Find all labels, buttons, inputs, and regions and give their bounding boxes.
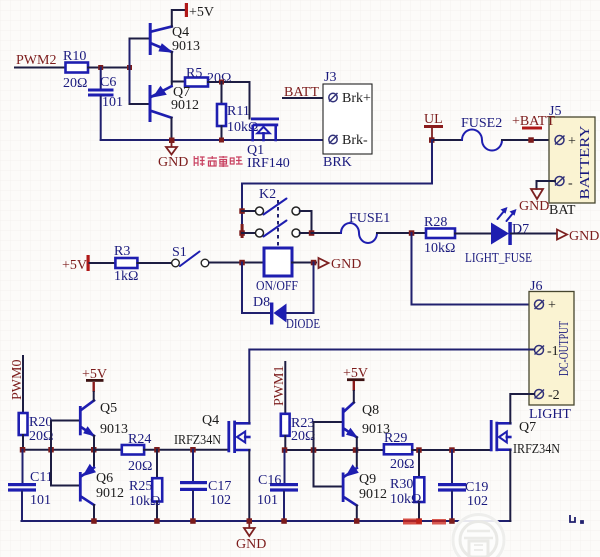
fuse FUSE1 xyxy=(341,211,390,243)
wire R3 to S1 xyxy=(137,262,171,264)
relay coil ON/OFF K2 xyxy=(256,248,298,294)
wire R28 to D7 xyxy=(455,233,492,235)
svg-text:9012: 9012 xyxy=(359,487,387,502)
wire Q4 drain to J6 pin -1 xyxy=(249,350,534,424)
node PWM2 label xyxy=(16,53,56,68)
wire down to Q1 gate xyxy=(249,82,251,119)
junction R11 bottom rail xyxy=(219,138,224,143)
wire K2 to FUSE1 xyxy=(312,232,342,234)
svg-text:20Ω: 20Ω xyxy=(291,429,315,444)
wire R10 to base bus xyxy=(88,67,130,69)
capacitor C11 xyxy=(8,450,53,521)
diode D8 xyxy=(253,295,320,332)
svg-text:20Ω: 20Ω xyxy=(128,459,152,474)
power port UL xyxy=(424,112,443,139)
junction K2 pole1 xyxy=(239,208,245,214)
junction base tap right xyxy=(311,447,317,453)
svg-text:GND: GND xyxy=(569,229,599,244)
wire R5 to R11 node xyxy=(208,81,250,83)
svg-text:9013: 9013 xyxy=(100,422,128,437)
power +5V top xyxy=(185,3,214,20)
svg-text:+: + xyxy=(548,298,556,313)
power +5V at Q8 xyxy=(343,366,368,403)
wire K2 left bus xyxy=(241,184,243,238)
relay K2 contacts xyxy=(242,187,312,247)
power port GND coil xyxy=(319,257,362,272)
junction R23 bottom xyxy=(282,447,288,453)
wire Q7 source down xyxy=(509,450,511,521)
svg-text:J6: J6 xyxy=(530,279,542,294)
node PWM1 label xyxy=(272,366,287,406)
capacitor C19 xyxy=(438,450,488,521)
junction R25 rail xyxy=(154,518,160,524)
wire FUSE1 to R28 xyxy=(377,232,426,234)
svg-text:Q5: Q5 xyxy=(100,401,117,416)
svg-text:Q4: Q4 xyxy=(172,25,189,40)
svg-text:FUSE2: FUSE2 xyxy=(461,116,502,131)
transistor Q8 xyxy=(342,403,390,439)
junction R30 top xyxy=(416,447,422,453)
resistor R28 xyxy=(424,215,455,256)
junction C19 top xyxy=(449,447,455,453)
svg-text:PWM2: PWM2 xyxy=(16,53,56,68)
svg-text:Q6: Q6 xyxy=(96,471,113,486)
svg-text:C17: C17 xyxy=(208,479,231,494)
label unload circuit chinese xyxy=(194,156,242,167)
resistor R10 xyxy=(63,49,88,91)
wire J5 pin2 to GND xyxy=(537,181,556,189)
junction coil left xyxy=(239,260,245,266)
junction C19 rail xyxy=(449,518,455,524)
power +BATT xyxy=(512,114,555,143)
svg-text:GND: GND xyxy=(331,257,361,272)
svg-text:IRF140: IRF140 xyxy=(247,156,290,171)
junction Q9 collector rail xyxy=(354,518,360,524)
svg-text:101: 101 xyxy=(102,95,123,110)
svg-text:101: 101 xyxy=(30,493,51,508)
wire Q4 emitter down xyxy=(171,52,173,86)
wire Q7 drain to J6 pin -2 xyxy=(510,394,534,423)
wire D8 left branch xyxy=(242,263,271,314)
svg-text:-2: -2 xyxy=(548,388,560,403)
watermark logo circle xyxy=(451,513,506,557)
watermark corner mark xyxy=(570,515,583,523)
led D7 xyxy=(465,207,532,266)
resistor R23 xyxy=(281,414,316,444)
wire R23 node row xyxy=(284,436,286,450)
resistor R25 xyxy=(129,450,162,521)
junction C17 top xyxy=(190,447,196,453)
svg-text:R30: R30 xyxy=(390,477,413,492)
svg-text:R25: R25 xyxy=(129,479,152,494)
wire Q8 emitter to node xyxy=(356,437,358,450)
wire UL node down to K2 feed xyxy=(242,140,432,184)
resistor R30 xyxy=(390,450,424,521)
svg-text:Q4: Q4 xyxy=(202,413,219,428)
power port GND right of D7 xyxy=(557,229,599,244)
junction Q7 collector rail xyxy=(169,138,175,144)
capacitor C17 xyxy=(180,450,231,521)
svg-text:BAT: BAT xyxy=(549,203,576,218)
junction R11 top xyxy=(219,80,224,85)
svg-text:+: + xyxy=(568,134,576,149)
svg-text:R24: R24 xyxy=(128,432,151,447)
wire R29 to gate xyxy=(412,449,490,451)
junction C16 rail xyxy=(281,518,287,524)
transistor Q4 xyxy=(149,23,200,55)
capacitor C6 xyxy=(88,68,123,141)
wire Q4 collector to +5V xyxy=(172,10,185,27)
svg-text:GND: GND xyxy=(158,155,188,170)
wire D8 right branch xyxy=(286,263,314,314)
transistor Q5 xyxy=(79,401,128,438)
node BATT label xyxy=(284,85,319,100)
transistor Q9 xyxy=(342,450,387,521)
rail bottom ground xyxy=(22,520,511,522)
wire S1 to ON/OFF coil xyxy=(209,262,264,264)
svg-text:FUSE1: FUSE1 xyxy=(349,211,390,226)
svg-text:ON/OFF: ON/OFF xyxy=(256,279,298,294)
wire Q4 source down xyxy=(248,450,250,521)
svg-text:DC-OUTPUT: DC-OUTPUT xyxy=(557,321,572,376)
svg-text:R28: R28 xyxy=(424,215,447,230)
svg-text:20Ω: 20Ω xyxy=(390,457,414,472)
junction R25 top xyxy=(154,447,160,453)
svg-text:R11: R11 xyxy=(227,104,250,119)
transistor Q7 xyxy=(149,85,200,122)
wire bases tap down to Q6 xyxy=(51,450,79,486)
wire R20 node row xyxy=(22,435,24,450)
svg-text:R3: R3 xyxy=(114,244,130,259)
svg-text:-: - xyxy=(568,176,573,191)
svg-text:9013: 9013 xyxy=(172,39,200,54)
wire bases tap up to Q8 xyxy=(314,422,342,450)
svg-text:R29: R29 xyxy=(384,431,407,446)
wire base bus vertical xyxy=(129,39,131,105)
svg-text:D8: D8 xyxy=(253,295,270,310)
svg-text:R10: R10 xyxy=(63,49,86,64)
wire bases tap up to Q5 xyxy=(51,421,79,450)
ground GND bottom xyxy=(236,523,266,552)
wire BATT to J3 pin1 xyxy=(283,97,329,99)
svg-text:DIODE: DIODE xyxy=(286,317,320,332)
svg-text:R20: R20 xyxy=(29,415,52,430)
svg-text:1kΩ: 1kΩ xyxy=(114,269,138,284)
mosfet Q7 bottom xyxy=(490,420,560,457)
switch S1 xyxy=(172,245,209,267)
resistor R24 xyxy=(94,432,152,474)
junction base tap xyxy=(48,447,54,453)
wire to R5 xyxy=(172,81,185,83)
svg-text:UL: UL xyxy=(424,112,443,127)
watermark red marks xyxy=(403,519,446,525)
junction GND rail xyxy=(247,518,253,524)
junction C17 rail xyxy=(190,518,196,524)
svg-text:10kΩ: 10kΩ xyxy=(390,492,421,507)
svg-text:C6: C6 xyxy=(100,75,116,90)
junction R28 left xyxy=(409,230,415,236)
wire UL node to FUSE2 xyxy=(432,139,462,141)
wire R24 to gate xyxy=(144,449,227,451)
wire D7 to GND port xyxy=(511,233,556,235)
wire +5V to R3 xyxy=(90,262,116,264)
svg-text:101: 101 xyxy=(257,493,278,508)
svg-text:IRFZ34N: IRFZ34N xyxy=(174,433,221,448)
resistor R11 xyxy=(217,82,258,140)
wire Q7 base xyxy=(130,103,149,105)
wire bases tap down to Q9 xyxy=(314,450,342,487)
svg-text:10kΩ: 10kΩ xyxy=(129,494,160,509)
svg-text:K2: K2 xyxy=(259,187,276,202)
junction K2 pole2 xyxy=(239,230,245,236)
svg-text:Brk-: Brk- xyxy=(342,133,368,148)
svg-text:J3: J3 xyxy=(324,70,336,85)
svg-text:9012: 9012 xyxy=(96,486,124,501)
junction R20 bottom xyxy=(20,447,26,453)
svg-text:Brk+: Brk+ xyxy=(342,91,371,106)
resistor R5 xyxy=(185,66,231,87)
svg-text:C11: C11 xyxy=(30,470,53,485)
ground GND unload xyxy=(158,141,188,170)
svg-text:S1: S1 xyxy=(172,245,187,260)
svg-text:20Ω: 20Ω xyxy=(29,429,53,444)
svg-text:C19: C19 xyxy=(465,480,488,495)
svg-text:BRK: BRK xyxy=(323,155,352,170)
junction at bus xyxy=(127,65,132,70)
junction emitters xyxy=(91,447,97,453)
resistor R3 xyxy=(114,244,138,284)
rail unload-circuit ground xyxy=(101,139,328,141)
wire FUSE2 to J5 xyxy=(502,139,555,141)
junction UL node xyxy=(429,137,435,143)
wire K2 bus overshoot xyxy=(241,224,244,238)
wire Q7 collector down xyxy=(171,118,173,140)
svg-text:102: 102 xyxy=(467,494,488,509)
svg-text:102: 102 xyxy=(210,493,231,508)
power +5V at R3 xyxy=(62,255,90,273)
wire Q4 base xyxy=(130,38,150,40)
power +5V at Q5 xyxy=(82,367,107,401)
svg-text:9012: 9012 xyxy=(171,98,199,113)
capacitor C16 xyxy=(257,450,298,521)
svg-text:+5V: +5V xyxy=(189,5,214,20)
svg-text:GND: GND xyxy=(236,537,266,552)
svg-text:BATTERY: BATTERY xyxy=(578,126,593,200)
junction coil right xyxy=(311,260,317,266)
ground GND at J5 xyxy=(519,189,549,214)
svg-text:LIGHT_FUSE: LIGHT_FUSE xyxy=(465,251,532,266)
svg-text:Q8: Q8 xyxy=(362,403,379,418)
svg-text:D7: D7 xyxy=(512,222,529,237)
svg-text:Q9: Q9 xyxy=(359,472,376,487)
connector J6 xyxy=(529,279,574,422)
svg-text:10kΩ: 10kΩ xyxy=(424,241,455,256)
junction Q6 collector rail xyxy=(91,518,97,524)
node PWM0 label xyxy=(10,360,25,400)
svg-text:C16: C16 xyxy=(258,473,281,488)
fuse FUSE2 xyxy=(461,116,502,151)
svg-text:R5: R5 xyxy=(186,66,202,81)
svg-text:20Ω: 20Ω xyxy=(63,76,87,91)
wire Q5 emitter to node xyxy=(93,436,95,450)
mosfet Q1 xyxy=(247,118,290,172)
junction R30 rail xyxy=(416,518,422,524)
resistor R29 xyxy=(384,431,415,472)
transistor Q6 xyxy=(79,450,124,521)
junction K2 output xyxy=(309,230,315,236)
svg-text:GND: GND xyxy=(519,199,549,214)
junction at C6 tap xyxy=(98,65,103,70)
wire PWM1 to R23 xyxy=(284,362,286,414)
junction emitters right xyxy=(353,447,359,453)
svg-text:Q7: Q7 xyxy=(519,420,536,435)
svg-text:+5V: +5V xyxy=(62,258,87,273)
wire R28 node down to J6 plus xyxy=(412,233,535,305)
wire coil right to GND port xyxy=(292,262,316,264)
mosfet Q4 bottom xyxy=(174,413,249,453)
svg-text:IRFZ34N: IRFZ34N xyxy=(513,442,560,457)
resistor R20 xyxy=(19,413,54,444)
connector J3 xyxy=(323,70,372,170)
wire PWM0 to R20 xyxy=(22,356,24,413)
connector J5 xyxy=(549,104,595,218)
wire PWM2 to R10 xyxy=(15,67,66,69)
